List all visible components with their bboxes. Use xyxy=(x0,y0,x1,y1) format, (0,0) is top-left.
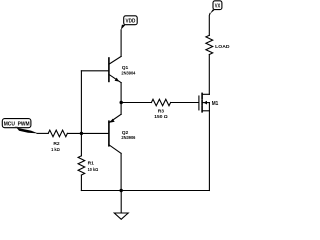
wire MCU_PWM to R2 xyxy=(37,132,48,134)
svg-text:2N3904: 2N3904 xyxy=(121,70,135,76)
svg-text:2N3906: 2N3906 xyxy=(121,135,135,141)
svg-text:10 kΩ: 10 kΩ xyxy=(88,167,99,173)
resistor R3 xyxy=(151,99,170,120)
wire ground rail xyxy=(81,190,209,192)
wire Q1 base xyxy=(81,70,108,72)
resistor R2 xyxy=(48,130,67,153)
svg-text:Q1: Q1 xyxy=(122,65,129,71)
svg-text:M1: M1 xyxy=(212,101,219,107)
wire node to Q2 emitter xyxy=(120,103,122,115)
wire VX to LOAD xyxy=(208,14,211,36)
wire Q1 emitter to node xyxy=(120,83,122,103)
svg-text:LOAD: LOAD xyxy=(215,44,230,50)
flag MCU_PWM xyxy=(2,119,38,134)
wire Q2 collector to ground rail xyxy=(120,153,122,190)
resistor LOAD xyxy=(206,35,230,54)
wire node to R3 xyxy=(121,102,151,104)
svg-text:VDD: VDD xyxy=(126,18,136,24)
transistor Q2 xyxy=(109,114,136,153)
svg-text:R2: R2 xyxy=(53,141,60,147)
wire R1 to ground rail xyxy=(80,175,82,190)
wire base bus vertical xyxy=(80,71,82,156)
svg-text:Q2: Q2 xyxy=(122,130,129,136)
wire Q1 collector to VDD xyxy=(120,30,122,57)
node emitter junction xyxy=(120,101,123,104)
svg-text:150 Ω: 150 Ω xyxy=(154,114,167,120)
flag VX xyxy=(210,1,222,14)
node base junction xyxy=(80,132,83,135)
transistor M1 xyxy=(199,93,218,111)
svg-text:R3: R3 xyxy=(158,109,165,115)
svg-text:MCU_PWM: MCU_PWM xyxy=(4,122,30,128)
node collector-rail junction xyxy=(120,189,123,192)
flag VDD xyxy=(121,16,137,30)
wire M1 source to ground rail xyxy=(208,103,210,191)
wire R3 to M1 gate xyxy=(171,102,199,104)
transistor Q1 xyxy=(109,56,136,82)
svg-text:R1: R1 xyxy=(88,161,95,167)
svg-text:VX: VX xyxy=(215,3,221,9)
svg-text:1 kΩ: 1 kΩ xyxy=(51,147,60,153)
resistor R1 xyxy=(78,156,98,175)
wire LOAD to M1 drain xyxy=(208,55,210,94)
wire R2 to Q2 base xyxy=(67,132,108,134)
ground xyxy=(114,191,128,220)
